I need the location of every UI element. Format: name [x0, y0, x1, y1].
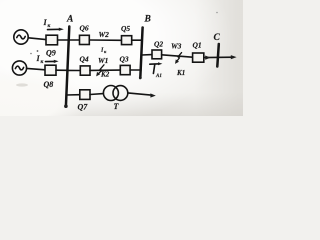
svg-text:Q9: Q9 — [46, 49, 56, 58]
svg-text:W1: W1 — [98, 56, 108, 65]
svg-text:к: к — [104, 49, 107, 54]
svg-text:А1: А1 — [155, 74, 162, 79]
svg-text:Q5: Q5 — [121, 24, 130, 33]
svg-text:C: C — [214, 33, 221, 43]
svg-text:к: к — [48, 23, 51, 29]
svg-text:Q6: Q6 — [80, 24, 89, 33]
svg-text:B: B — [144, 15, 151, 25]
svg-text:Q4: Q4 — [80, 55, 89, 64]
svg-text:Q1: Q1 — [193, 41, 202, 50]
svg-text:к: к — [41, 59, 44, 65]
svg-text:Q2: Q2 — [154, 40, 163, 49]
svg-text:Т: Т — [114, 102, 120, 111]
svg-text:W3: W3 — [171, 42, 182, 51]
svg-text:W2: W2 — [99, 30, 110, 39]
svg-text:Q8: Q8 — [44, 80, 54, 89]
svg-text:Q3: Q3 — [120, 55, 129, 64]
svg-text:К2: К2 — [100, 71, 110, 79]
svg-text:Q7: Q7 — [78, 103, 89, 112]
svg-text:К1: К1 — [176, 69, 185, 77]
svg-text:A: A — [66, 15, 73, 25]
